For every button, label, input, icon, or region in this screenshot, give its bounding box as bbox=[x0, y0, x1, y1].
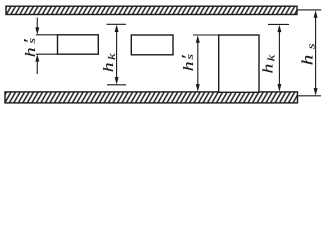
dimension h's (left): extension lines bbox=[36, 34, 58, 36]
dimension h_s (right): vertical line with outward arrows bbox=[314, 10, 318, 95]
svg-text:h: h bbox=[100, 62, 116, 72]
coil rectangle 2 bbox=[131, 35, 173, 55]
dimension h_k (second): top tick bbox=[268, 23, 289, 25]
dimension h's (middle): extension line to rect 3 top bbox=[193, 34, 219, 36]
tall bar rectangle 3 bbox=[219, 35, 259, 92]
top iron bar (hatched) bbox=[6, 6, 297, 14]
label h_k (first) bbox=[100, 53, 117, 72]
dimension h's (left): bottom arrow pointing up bbox=[35, 54, 39, 74]
dimension h_k (first): top tick bbox=[107, 23, 127, 25]
dimension h_k (first): vertical line with outward arrows bbox=[115, 25, 119, 85]
svg-text:s: s bbox=[26, 38, 38, 44]
dimension h_s (right): bottom extension line bbox=[298, 95, 322, 97]
svg-text:h: h bbox=[299, 55, 316, 65]
bottom iron bar (hatched) bbox=[5, 92, 298, 103]
svg-text:s: s bbox=[184, 54, 196, 60]
dimension h_k (first): bottom tick bbox=[107, 84, 126, 86]
svg-text:k: k bbox=[105, 53, 118, 60]
dimension h's (middle): vertical line, up arrow at top, down arrow at bottom bar bbox=[196, 35, 200, 91]
dimension h's (left): top arrow pointing down bbox=[35, 18, 39, 35]
svg-text:h: h bbox=[23, 47, 39, 57]
svg-text:h: h bbox=[180, 61, 196, 71]
svg-text:h: h bbox=[260, 64, 276, 74]
svg-text:k: k bbox=[264, 55, 277, 62]
label h's (middle) bbox=[179, 54, 197, 71]
coil rectangle 1 bbox=[58, 35, 99, 54]
svg-text:s: s bbox=[304, 43, 317, 49]
dimension h_k (second): vertical line bbox=[277, 25, 281, 92]
label h_s (right) bbox=[299, 43, 317, 65]
label h_k (second) bbox=[260, 55, 277, 74]
label h's (left) bbox=[21, 38, 39, 57]
dimension h_s (right): top extension line bbox=[297, 9, 321, 11]
